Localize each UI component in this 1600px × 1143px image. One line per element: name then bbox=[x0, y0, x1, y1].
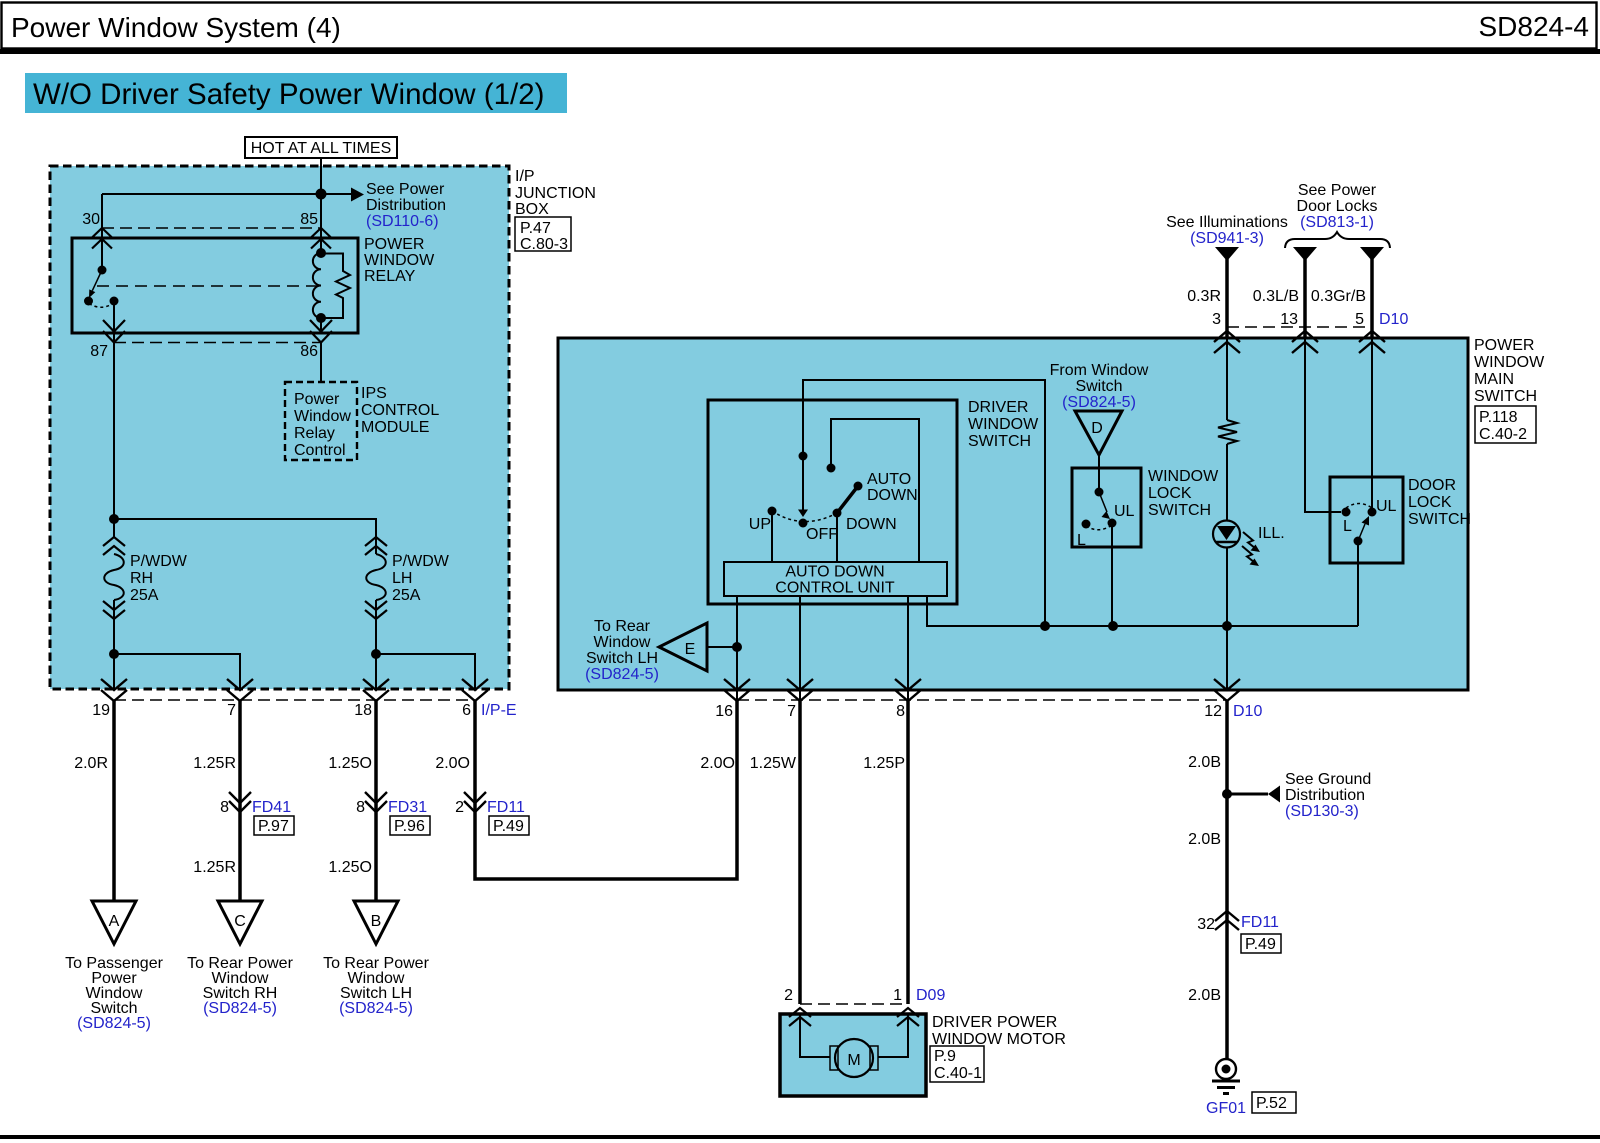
svg-text:BOX: BOX bbox=[515, 201, 549, 218]
relay contact NO dot bbox=[110, 297, 119, 306]
relay switch lever bbox=[89, 270, 102, 298]
svg-text:AUTO: AUTO bbox=[867, 471, 911, 488]
arrow see power distribution bbox=[351, 188, 364, 202]
svg-text:(SD824-5): (SD824-5) bbox=[339, 1000, 413, 1017]
motor ref box P.9 C.40-1 bbox=[930, 1046, 984, 1082]
wire 2.0R label bbox=[74, 755, 108, 772]
svg-text:P/WDW: P/WDW bbox=[130, 553, 188, 570]
wire 1.25O lower label bbox=[328, 859, 372, 876]
svg-text:(SD941-3): (SD941-3) bbox=[1190, 230, 1264, 247]
svg-text:87: 87 bbox=[90, 343, 108, 360]
pin 12 chevron bbox=[1214, 679, 1240, 701]
wire LED down bbox=[1226, 548, 1228, 690]
wire 1.25R bbox=[238, 701, 242, 901]
relay coil wire bottom bbox=[320, 318, 322, 333]
svg-text:CONTROL UNIT: CONTROL UNIT bbox=[775, 580, 895, 597]
connector E triangle bbox=[659, 623, 707, 671]
svg-text:From Window: From Window bbox=[1050, 362, 1149, 379]
pin 19 label bbox=[92, 702, 110, 719]
page bottom rule bbox=[0, 1135, 1600, 1139]
see illuminations label bbox=[1166, 214, 1288, 247]
node bus LED bbox=[1222, 621, 1232, 631]
label DOWN bbox=[846, 516, 897, 533]
svg-text:(SD824-5): (SD824-5) bbox=[1062, 394, 1136, 411]
main switch ref box P.118 C.40-2 bbox=[1475, 406, 1536, 443]
label AUTO DOWN bbox=[867, 471, 918, 504]
svg-text:Power: Power bbox=[294, 391, 340, 408]
pin 7 chevron bbox=[227, 679, 253, 701]
svg-text:Control: Control bbox=[294, 442, 346, 459]
node E junction bbox=[732, 642, 742, 652]
svg-text:SWITCH: SWITCH bbox=[968, 433, 1031, 450]
svg-text:WINDOW: WINDOW bbox=[1148, 468, 1219, 485]
pin 85 chevron bbox=[311, 228, 331, 249]
svg-text:DRIVER: DRIVER bbox=[968, 399, 1028, 416]
HOT AT ALL TIMES box bbox=[245, 137, 397, 158]
FD41 pin 8 label bbox=[220, 799, 229, 816]
svg-text:W/O Driver Safety Power Window: W/O Driver Safety Power Window (1/2) bbox=[33, 78, 544, 111]
pin 7b chevron bbox=[787, 679, 813, 701]
svg-text:(SD813-1): (SD813-1) bbox=[1300, 214, 1374, 231]
svg-text:L: L bbox=[1343, 518, 1352, 535]
pin 86 chevron bbox=[310, 320, 332, 343]
connector I/P-E label bbox=[481, 702, 517, 719]
svg-text:C.80-3: C.80-3 bbox=[520, 236, 568, 253]
ground GF01 label bbox=[1206, 1100, 1246, 1117]
pin 16 chevron bbox=[724, 679, 750, 701]
wire pin5 to door lock bbox=[1371, 338, 1373, 508]
svg-text:DOWN: DOWN bbox=[846, 516, 897, 533]
svg-text:1.25W: 1.25W bbox=[750, 755, 797, 772]
motor M symbol bbox=[830, 1039, 878, 1077]
page code bbox=[1478, 11, 1589, 42]
pin 7 label bbox=[227, 702, 236, 719]
svg-text:(SD824-5): (SD824-5) bbox=[585, 666, 659, 683]
svg-text:19: 19 bbox=[92, 702, 110, 719]
svg-text:Window: Window bbox=[594, 634, 651, 651]
svg-text:1.25R: 1.25R bbox=[193, 859, 236, 876]
wire 2.0B bbox=[1225, 701, 1229, 1059]
svg-text:7: 7 bbox=[787, 703, 796, 720]
svg-text:WINDOW: WINDOW bbox=[364, 252, 435, 269]
pin 30 chevron bbox=[92, 228, 112, 249]
svg-text:Switch: Switch bbox=[1075, 378, 1122, 395]
pin 7b label bbox=[787, 703, 796, 720]
svg-text:Distribution: Distribution bbox=[366, 197, 446, 214]
svg-text:1.25P: 1.25P bbox=[863, 755, 905, 772]
svg-text:2.0B: 2.0B bbox=[1188, 987, 1221, 1004]
fuse LH label bbox=[392, 553, 450, 604]
door lock dashed arc bbox=[1346, 504, 1372, 509]
pin 16 label bbox=[715, 703, 733, 720]
IPS inner label bbox=[294, 391, 351, 459]
pin 3 label bbox=[1212, 311, 1221, 328]
svg-text:8: 8 bbox=[896, 703, 905, 720]
FD11 ref box P.49 bbox=[489, 816, 529, 835]
svg-text:Window: Window bbox=[294, 408, 351, 425]
switch positions dashed arc bbox=[772, 511, 837, 522]
header rule bbox=[0, 49, 1600, 54]
svg-text:12: 12 bbox=[1204, 703, 1222, 720]
svg-text:See Illuminations: See Illuminations bbox=[1166, 214, 1288, 231]
wire pin13 to door lock bbox=[1305, 338, 1341, 512]
svg-text:Relay: Relay bbox=[294, 425, 335, 442]
door lock UL label bbox=[1376, 498, 1397, 515]
svg-text:UP: UP bbox=[749, 516, 771, 533]
svg-text:B: B bbox=[371, 913, 382, 930]
wire resistor to LED bbox=[1226, 444, 1228, 521]
svg-text:2.0R: 2.0R bbox=[74, 755, 108, 772]
I/P junction box bbox=[50, 166, 509, 689]
I/P junction box label bbox=[515, 168, 596, 218]
svg-text:SWITCH: SWITCH bbox=[1408, 511, 1471, 528]
svg-text:FD31: FD31 bbox=[388, 799, 427, 816]
svg-text:POWER: POWER bbox=[1474, 337, 1534, 354]
svg-text:P.9: P.9 bbox=[934, 1048, 956, 1065]
svg-text:LOCK: LOCK bbox=[1148, 485, 1192, 502]
wire 0.3Gr/B label bbox=[1311, 288, 1366, 305]
svg-text:8: 8 bbox=[220, 799, 229, 816]
window lock switch label bbox=[1148, 468, 1219, 519]
wire ADCU to pin7 bbox=[799, 596, 801, 700]
svg-text:32: 32 bbox=[1197, 916, 1215, 933]
connector D10 top label bbox=[1379, 311, 1408, 328]
svg-text:2.0B: 2.0B bbox=[1188, 831, 1221, 848]
wire 0.3L/B label bbox=[1253, 288, 1299, 305]
FD11 label bbox=[487, 799, 525, 816]
svg-text:5: 5 bbox=[1355, 311, 1364, 328]
connector dashed line D10 bottom bbox=[737, 699, 1227, 701]
contact DOWN dot bbox=[833, 509, 842, 518]
motor wire right bbox=[878, 1014, 908, 1057]
wire ADCU to pin8 bbox=[907, 596, 909, 700]
wire pin85 drop bbox=[320, 194, 322, 238]
svg-text:LH: LH bbox=[392, 570, 412, 587]
pin 12 label bbox=[1204, 703, 1222, 720]
svg-text:0.3R: 0.3R bbox=[1187, 288, 1221, 305]
from window switch label bbox=[1050, 362, 1149, 411]
relay mechanical link dashed bbox=[97, 285, 318, 287]
svg-text:0.3Gr/B: 0.3Gr/B bbox=[1311, 288, 1366, 305]
fuse RH bottom chevron bbox=[103, 601, 125, 619]
svg-text:8: 8 bbox=[356, 799, 365, 816]
svg-text:See Power: See Power bbox=[366, 181, 445, 198]
svg-text:30: 30 bbox=[82, 211, 100, 228]
pin 18 chevron bbox=[363, 679, 389, 701]
driver power window motor box bbox=[780, 1014, 926, 1096]
wire 1.25R label bbox=[193, 755, 236, 772]
wire window lock out bbox=[1111, 523, 1113, 626]
svg-text:CONTROL: CONTROL bbox=[361, 402, 439, 419]
wire to see power distribution bbox=[321, 193, 351, 195]
svg-text:D10: D10 bbox=[1379, 311, 1408, 328]
svg-text:M: M bbox=[847, 1052, 860, 1069]
pin 5 chevron bbox=[1359, 331, 1385, 353]
fuse P/WDW RH element bbox=[104, 554, 124, 600]
connector dashed line D09 bbox=[800, 1003, 908, 1005]
door lock switch label bbox=[1408, 477, 1471, 528]
svg-text:See Power: See Power bbox=[1298, 182, 1377, 199]
svg-text:16: 16 bbox=[715, 703, 733, 720]
LED light arrow 1 bbox=[1243, 532, 1260, 552]
svg-text:FD41: FD41 bbox=[252, 799, 291, 816]
relay coil resistor bbox=[321, 254, 350, 319]
svg-text:(SD110-6): (SD110-6) bbox=[366, 213, 439, 230]
svg-text:(SD824-5): (SD824-5) bbox=[77, 1015, 151, 1032]
wire 0.3R label bbox=[1187, 288, 1221, 305]
driver window switch label bbox=[968, 399, 1039, 450]
pin 85 label bbox=[300, 211, 318, 228]
svg-text:25A: 25A bbox=[392, 587, 421, 604]
LED ILL circle bbox=[1213, 521, 1240, 548]
svg-text:P.96: P.96 bbox=[394, 818, 425, 835]
relay coil bbox=[313, 253, 321, 318]
pin 3 chevron bbox=[1214, 331, 1240, 353]
auto down control unit label bbox=[775, 564, 895, 597]
connector dashed line I/P-E bbox=[114, 699, 475, 701]
wire 87 down to fuses bbox=[113, 333, 115, 537]
motor pin 2 chevron bbox=[789, 1008, 811, 1026]
wire 2.0B label bbox=[1188, 754, 1221, 771]
wire B+ horizontal bbox=[102, 193, 321, 195]
svg-text:GF01: GF01 bbox=[1206, 1100, 1246, 1117]
connector D09 label bbox=[916, 987, 945, 1004]
svg-text:JUNCTION: JUNCTION bbox=[515, 185, 596, 202]
fuse RH label bbox=[130, 553, 188, 604]
page title bbox=[11, 12, 341, 43]
svg-text:13: 13 bbox=[1280, 311, 1298, 328]
svg-text:UL: UL bbox=[1114, 503, 1135, 520]
pin 87 label bbox=[90, 343, 108, 360]
pole junction dot bbox=[799, 452, 808, 461]
svg-text:Distribution: Distribution bbox=[1285, 787, 1365, 804]
power window main switch box bbox=[558, 338, 1468, 690]
svg-text:18: 18 bbox=[354, 702, 372, 719]
label ILL bbox=[1258, 525, 1285, 542]
contact AUTO DOWN dot bbox=[854, 482, 863, 491]
motor pin 1 label bbox=[893, 987, 902, 1004]
motor label bbox=[932, 1014, 1066, 1048]
power window relay box bbox=[72, 238, 358, 333]
door lock bottom dot bbox=[1354, 537, 1363, 546]
svg-text:P.52: P.52 bbox=[1256, 1095, 1287, 1112]
svg-text:D09: D09 bbox=[916, 987, 945, 1004]
svg-text:P.118: P.118 bbox=[1479, 409, 1518, 426]
relay pole wire bbox=[101, 238, 103, 270]
motor pin 1 chevron bbox=[897, 1008, 919, 1026]
node B+ junction bbox=[316, 189, 327, 200]
connector C text bbox=[187, 955, 293, 1017]
node fuse RH out bbox=[109, 649, 119, 659]
node ground branch bbox=[1222, 789, 1232, 799]
door lock lever bbox=[1358, 516, 1369, 541]
section title bar bbox=[25, 73, 567, 113]
motor pin 2 label bbox=[784, 987, 793, 1004]
svg-text:SWITCH: SWITCH bbox=[1474, 388, 1537, 405]
illumination resistor bbox=[1218, 420, 1237, 444]
label UP bbox=[749, 516, 771, 533]
wire pin30 drop bbox=[101, 194, 103, 238]
svg-text:P.47: P.47 bbox=[520, 220, 551, 237]
ground symbol GF01 bbox=[1212, 1059, 1240, 1094]
connector D triangle bbox=[1075, 411, 1122, 455]
window lock UL label bbox=[1114, 503, 1135, 520]
svg-text:Switch LH: Switch LH bbox=[586, 650, 658, 667]
svg-text:1.25R: 1.25R bbox=[193, 755, 236, 772]
svg-text:2: 2 bbox=[784, 987, 793, 1004]
relay coil wire top bbox=[320, 238, 322, 253]
pin 5 label bbox=[1355, 311, 1364, 328]
wire 1.25O bbox=[374, 701, 378, 901]
svg-text:D: D bbox=[1091, 420, 1103, 437]
svg-text:Door Locks: Door Locks bbox=[1297, 198, 1378, 215]
node fuse LH out bbox=[371, 649, 381, 659]
svg-text:1.25O: 1.25O bbox=[328, 859, 372, 876]
svg-text:0.3L/B: 0.3L/B bbox=[1253, 288, 1299, 305]
wire door lock out bbox=[1357, 541, 1359, 626]
connector E text bbox=[585, 618, 659, 683]
svg-text:2.0O: 2.0O bbox=[435, 755, 470, 772]
FD31 ref box P.96 bbox=[390, 816, 430, 835]
svg-text:MAIN: MAIN bbox=[1474, 371, 1514, 388]
wire inner rect bbox=[831, 419, 919, 562]
wire E to junction bbox=[707, 646, 737, 648]
FD41 ref box P.97 bbox=[254, 816, 294, 835]
wire pole top run bbox=[803, 380, 1045, 626]
contact OFF dot bbox=[799, 519, 808, 528]
pin 13 label bbox=[1280, 311, 1298, 328]
pole arrowhead bbox=[798, 510, 808, 518]
svg-text:RH: RH bbox=[130, 570, 153, 587]
node bus window lock bbox=[1108, 621, 1118, 631]
svg-text:DOOR: DOOR bbox=[1408, 477, 1456, 494]
pin 13 chevron bbox=[1292, 331, 1318, 353]
svg-text:WINDOW: WINDOW bbox=[968, 416, 1039, 433]
FD11 chevron bbox=[464, 792, 486, 812]
svg-text:7: 7 bbox=[227, 702, 236, 719]
door lock L label bbox=[1343, 518, 1352, 535]
pin 6 chevron bbox=[462, 679, 488, 701]
door locks brace bbox=[1285, 232, 1390, 248]
svg-text:1.25O: 1.25O bbox=[328, 755, 372, 772]
wire 1.25O label bbox=[328, 755, 372, 772]
pin 30 label bbox=[82, 211, 100, 228]
label see power distribution bbox=[366, 181, 446, 230]
wire 2.0O bbox=[475, 700, 737, 879]
svg-text:(SD824-5): (SD824-5) bbox=[203, 1000, 277, 1017]
svg-text:3: 3 bbox=[1212, 311, 1221, 328]
relay coil bottom dot bbox=[316, 313, 326, 323]
pin 8 chevron bbox=[895, 679, 921, 701]
svg-text:DOWN: DOWN bbox=[867, 487, 918, 504]
door lock feed arrow 2 bbox=[1360, 247, 1384, 261]
window lock pole dot bbox=[1095, 488, 1104, 497]
connector B triangle bbox=[354, 901, 398, 944]
LED cathode bar bbox=[1216, 541, 1237, 543]
connector dashed line D10 top bbox=[1227, 326, 1372, 328]
svg-text:Power Window System (4): Power Window System (4) bbox=[11, 12, 341, 43]
window lock L label bbox=[1077, 532, 1086, 549]
svg-text:C.40-1: C.40-1 bbox=[934, 1065, 982, 1082]
relay contact NC dot bbox=[84, 297, 93, 306]
FD31 pin 8 label bbox=[356, 799, 365, 816]
door lock switch box bbox=[1330, 477, 1403, 563]
connector A triangle bbox=[92, 901, 136, 944]
FD11 pin 2 label bbox=[455, 799, 464, 816]
svg-text:See Ground: See Ground bbox=[1285, 771, 1371, 788]
inner contact dot bbox=[827, 464, 836, 473]
pin 8 label bbox=[896, 703, 905, 720]
connector B text bbox=[323, 955, 429, 1017]
svg-text:LOCK: LOCK bbox=[1408, 494, 1452, 511]
wire 2.0O label bbox=[435, 755, 470, 772]
wire 2.0R bbox=[112, 701, 116, 901]
connector dashed line 87-86 bbox=[114, 342, 321, 344]
svg-text:DRIVER POWER: DRIVER POWER bbox=[932, 1014, 1057, 1031]
wire 1.25P bbox=[906, 701, 910, 1004]
wire 1.25W bbox=[798, 701, 802, 1004]
svg-text:86: 86 bbox=[300, 343, 318, 360]
svg-text:E: E bbox=[685, 641, 696, 658]
wire branch pin7 bbox=[114, 654, 240, 689]
node bus from OFF loop bbox=[1040, 621, 1050, 631]
wire 86 to IPS bbox=[320, 342, 322, 382]
door lock L dot bbox=[1342, 508, 1351, 517]
wire 1.25P label bbox=[863, 755, 905, 772]
FD31 label bbox=[388, 799, 427, 816]
svg-text:P.49: P.49 bbox=[1245, 936, 1276, 953]
wire fuse LH out bbox=[375, 600, 377, 689]
svg-text:2.0B: 2.0B bbox=[1188, 754, 1221, 771]
LED triangle bbox=[1217, 526, 1236, 540]
contact UP dot bbox=[768, 507, 777, 516]
svg-text:(SD130-3): (SD130-3) bbox=[1285, 803, 1359, 820]
wire 0.3R bbox=[1225, 259, 1229, 338]
svg-text:WINDOW: WINDOW bbox=[1474, 354, 1545, 371]
connector dashed line 30-85 bbox=[102, 227, 321, 229]
svg-text:OFF: OFF bbox=[806, 526, 838, 543]
svg-text:HOT AT ALL TIMES: HOT AT ALL TIMES bbox=[251, 140, 392, 157]
wire D to window lock bbox=[1098, 455, 1100, 489]
see ground distribution label bbox=[1285, 771, 1371, 820]
door lock feed arrow 1 bbox=[1293, 247, 1317, 261]
svg-text:25A: 25A bbox=[130, 587, 159, 604]
svg-text:SD824-4: SD824-4 bbox=[1478, 11, 1589, 42]
svg-text:POWER: POWER bbox=[364, 236, 424, 253]
relay pole dot bbox=[98, 266, 107, 275]
FD11 ground label bbox=[1241, 914, 1279, 931]
svg-text:UL: UL bbox=[1376, 498, 1397, 515]
svg-text:P.49: P.49 bbox=[493, 818, 524, 835]
window lock UL dot bbox=[1108, 519, 1117, 528]
wire DOWN contact bbox=[836, 513, 838, 562]
illumination feed arrow bbox=[1215, 247, 1239, 261]
fuse RH top chevron bbox=[103, 537, 125, 555]
wire 0.3Gr/B bbox=[1370, 259, 1374, 338]
IPS control module box bbox=[285, 382, 357, 460]
window lock lever bbox=[1099, 492, 1110, 519]
relay coil top dot bbox=[316, 248, 326, 258]
window lock dashed arc bbox=[1086, 525, 1112, 530]
wire from HOT down bbox=[320, 158, 322, 194]
svg-text:P.97: P.97 bbox=[258, 818, 289, 835]
svg-text:1: 1 bbox=[893, 987, 902, 1004]
switch lever auto down bbox=[837, 486, 858, 513]
svg-text:P/WDW: P/WDW bbox=[392, 553, 450, 570]
fuse P/WDW LH element bbox=[366, 554, 386, 600]
svg-text:FD11: FD11 bbox=[1241, 914, 1279, 931]
svg-text:D10: D10 bbox=[1233, 703, 1262, 720]
